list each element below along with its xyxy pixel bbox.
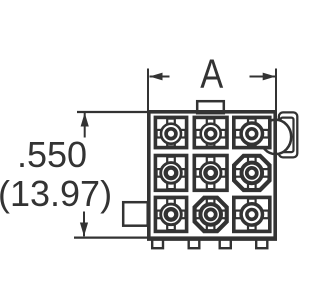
dimension A right extension line — [275, 69, 277, 112]
svg-text:(13.97): (13.97) — [0, 173, 112, 214]
cavity r1c1 — [155, 117, 186, 147]
housing outline — [149, 112, 275, 238]
dimension .550 top extension line — [77, 111, 150, 113]
right latch outer — [279, 112, 297, 157]
cavity r1c2 — [194, 117, 227, 147]
cavity r2c3 — [234, 156, 269, 190]
housing bottom wall — [147, 236, 277, 240]
dimension .550 down arrow — [80, 212, 88, 237]
svg-text:.550: .550 — [17, 134, 87, 175]
cavity r3c1 — [155, 197, 186, 231]
dimension A left extension line — [147, 69, 149, 112]
mounting foot 3 — [220, 238, 231, 248]
cavity r2c2 — [194, 156, 227, 191]
mounting foot 4 — [256, 238, 267, 248]
svg-text:A: A — [200, 52, 224, 97]
cavity r2c1 — [155, 156, 186, 191]
cavity r3c2 — [195, 198, 227, 231]
dimension A right arrow — [250, 73, 276, 81]
top polarization tab — [197, 101, 224, 113]
cavity r1c3 — [234, 117, 270, 147]
mounting foot 2 — [189, 238, 200, 248]
dimension .550 up arrow — [81, 113, 89, 138]
dimension .550 bottom extension line — [74, 237, 151, 239]
right latch inner — [281, 118, 294, 153]
dimension A left arrow — [150, 73, 170, 81]
left mounting tab — [123, 202, 148, 226]
mounting foot 1 — [152, 238, 163, 248]
cavity r3c3 — [234, 197, 270, 231]
right latch circle — [260, 120, 291, 154]
